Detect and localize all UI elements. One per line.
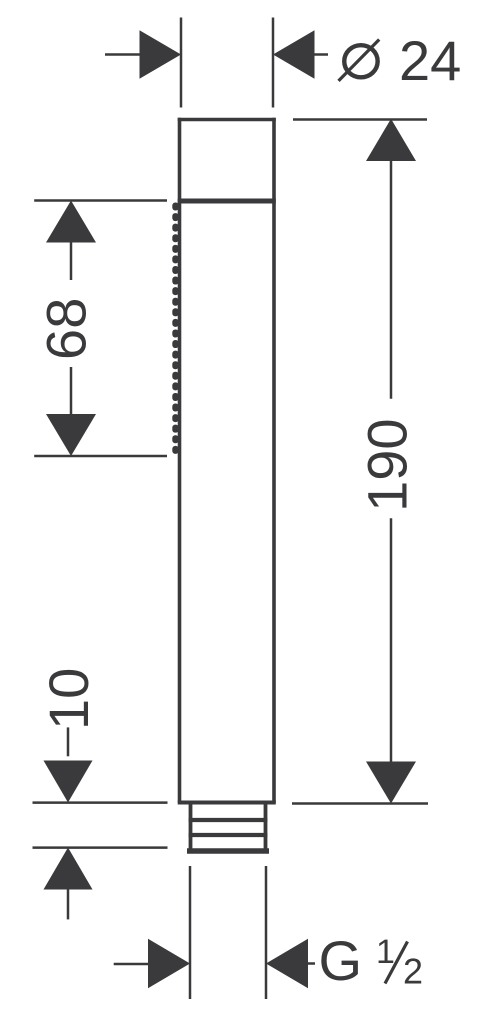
svg-text:190: 190 bbox=[355, 418, 418, 511]
svg-text:68: 68 bbox=[34, 298, 97, 360]
svg-text:G: G bbox=[319, 929, 363, 992]
svg-text:24: 24 bbox=[399, 29, 461, 92]
svg-text:10: 10 bbox=[37, 668, 100, 730]
